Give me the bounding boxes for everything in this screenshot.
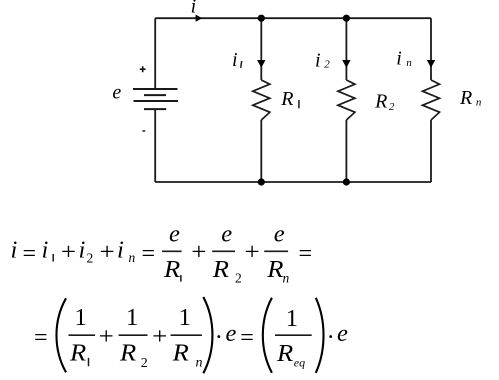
svg-text:2: 2 (324, 59, 330, 71)
wire branch n upper right edge (430, 18, 432, 80)
battery plate 2 short (144, 94, 166, 96)
junction dot top 2 (343, 15, 350, 22)
wire left vertical top lead (154, 18, 156, 89)
junction dot top 1 (258, 15, 265, 22)
svg-text:i: i (42, 236, 49, 263)
svg-text:+: + (99, 323, 114, 350)
svg-text:+: + (61, 238, 76, 265)
wire branch n lower (430, 120, 432, 182)
eq1 frac1 denominator subscript bar (180, 275, 182, 282)
svg-text:n: n (283, 270, 290, 285)
eq1 frac1 bar (162, 250, 182, 252)
label i1 subscript stroke (241, 61, 242, 68)
label - polarity (142, 130, 145, 132)
label R1 subscript bar (298, 100, 300, 108)
svg-text:R: R (69, 340, 86, 367)
svg-text:i: i (11, 236, 18, 263)
svg-text:R: R (172, 340, 189, 367)
wire left vertical bottom lead (154, 109, 156, 182)
svg-text:R: R (280, 88, 293, 110)
svg-text:+: + (100, 238, 115, 265)
equation 1: i = i1 + i2 + in = e/R1 + e/R2 + e/Rn = (11, 221, 313, 286)
label + polarity (140, 66, 146, 72)
eq2 frac3 bar (171, 334, 202, 336)
arrow i2 (342, 60, 350, 68)
svg-text:i: i (315, 50, 321, 72)
svg-text:R: R (266, 256, 283, 283)
svg-text:2: 2 (87, 251, 94, 266)
arrow i on top rail (196, 15, 203, 22)
svg-text:n: n (196, 356, 203, 371)
svg-text:n: n (129, 250, 136, 265)
arrow in (427, 60, 435, 68)
junction dot bottom 2 (343, 178, 350, 185)
battery plate 3 long (134, 100, 179, 102)
svg-text:e: e (221, 221, 232, 248)
svg-text:1: 1 (179, 304, 191, 331)
eq2 frac4 bar (275, 334, 312, 336)
eq2 frac2 bar (119, 334, 148, 336)
wire branch 1 upper (260, 18, 262, 80)
svg-text:i: i (396, 48, 402, 70)
svg-text:n: n (476, 97, 482, 109)
eq1 i1 subscript bar (52, 254, 54, 262)
eq1 frac2 bar (212, 250, 235, 252)
svg-text:i: i (117, 236, 124, 263)
svg-text:R: R (374, 91, 387, 113)
eq2 close paren 1 (203, 297, 212, 373)
svg-text:e: e (169, 221, 180, 248)
svg-text:=: = (299, 240, 313, 267)
svg-text:=: = (142, 240, 156, 267)
svg-text:e: e (274, 221, 285, 248)
svg-text:R: R (212, 256, 229, 283)
svg-text:·: · (215, 324, 223, 351)
svg-text:2: 2 (235, 270, 242, 285)
wire bottom rail (155, 181, 431, 183)
wire branch 2 upper (345, 18, 347, 80)
svg-text:R: R (119, 340, 136, 367)
eq1 frac3 bar (264, 250, 288, 252)
battery plate 4 short (144, 108, 166, 110)
resistor Rn zigzag (423, 80, 440, 120)
arrow i1 (257, 60, 265, 68)
svg-text:+: + (191, 238, 206, 265)
resistor R2 zigzag (338, 80, 355, 120)
svg-text:·: · (327, 324, 335, 351)
eq2 open paren 1 (56, 298, 66, 372)
battery plate 1 long (133, 88, 178, 90)
junction dot bottom 1 (258, 178, 265, 185)
svg-text:eq: eq (294, 355, 305, 369)
resistor R1 zigzag (253, 80, 270, 120)
svg-text:e: e (337, 320, 348, 347)
svg-text:1: 1 (75, 304, 87, 331)
svg-text:2: 2 (389, 101, 395, 113)
eq2 close paren 2 (316, 298, 324, 373)
svg-text:R: R (276, 340, 293, 367)
wire branch 1 lower (260, 120, 262, 182)
wire top rail (155, 17, 431, 19)
svg-text:2: 2 (141, 356, 148, 371)
svg-text:n: n (406, 57, 412, 69)
svg-text:1: 1 (286, 305, 298, 332)
eq2 open paren 2 (263, 298, 272, 373)
eq2 frac1 bar (69, 334, 96, 336)
svg-text:R: R (163, 256, 180, 283)
svg-text:=: = (34, 324, 48, 351)
svg-text:i: i (79, 236, 86, 263)
equation 2: = (1/R1 + 1/R2 + 1/Rn) . e = (1/Req) . e (34, 297, 348, 373)
wire branch 2 lower (345, 120, 347, 182)
svg-text:=: = (23, 240, 37, 267)
svg-text:e: e (112, 82, 121, 104)
svg-text:i: i (191, 0, 197, 18)
svg-text:1: 1 (126, 304, 138, 331)
svg-text:=: = (240, 324, 254, 351)
svg-text:e: e (226, 320, 237, 347)
eq2 frac1 denominator subscript bar (88, 358, 90, 367)
svg-text:i: i (232, 49, 238, 71)
svg-text:+: + (152, 323, 167, 350)
svg-text:R: R (459, 87, 472, 109)
svg-text:+: + (245, 238, 260, 265)
